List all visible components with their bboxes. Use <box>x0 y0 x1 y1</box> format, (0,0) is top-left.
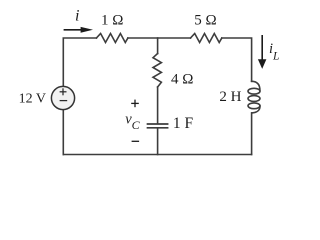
voltage source V1 12V circle <box>51 86 74 109</box>
label minus sign of vC <box>132 140 140 142</box>
wire middle branch top (junction to R 4ohm) <box>157 38 159 54</box>
svg-text:1 Ω: 1 Ω <box>101 13 123 29</box>
wire right-bottom segment (inductor to bottom rail) <box>251 113 253 155</box>
wire bottom rail <box>63 154 251 156</box>
capacitor 1F bottom plate <box>148 127 168 129</box>
resistor 4 ohm zigzag <box>153 54 161 88</box>
resistor 5 ohm zigzag <box>191 34 222 43</box>
voltage source plus terminal mark <box>60 88 67 95</box>
wire middle branch (R 4ohm to capacitor) <box>157 87 159 123</box>
svg-text:12 V: 12 V <box>19 92 46 107</box>
inductor 2H coil entry curve <box>252 81 260 90</box>
wire middle branch bottom (capacitor to bottom rail) <box>157 129 159 155</box>
svg-text:5 Ω: 5 Ω <box>194 13 216 29</box>
inductor 2H exit curve <box>252 106 260 113</box>
svg-text:i: i <box>75 8 79 25</box>
svg-text:1 F: 1 F <box>173 115 194 132</box>
resistor 1 ohm zigzag <box>96 34 128 43</box>
inductor 2H loop 1 <box>248 88 260 94</box>
wire top-right segment and right drop to inductor <box>222 38 252 81</box>
svg-text:2 H: 2 H <box>219 89 241 105</box>
svg-text:iL: iL <box>269 41 279 62</box>
current arrow iL (right side, pointing down) <box>258 35 267 69</box>
wire left-bottom segment (source to bottom rail) <box>62 110 64 155</box>
capacitor 1F top plate <box>148 123 168 125</box>
current arrow i (top left, pointing right) <box>64 27 93 33</box>
svg-text:4 Ω: 4 Ω <box>171 71 193 87</box>
inductor 2H loop 2 <box>248 96 260 102</box>
wire top-middle segment (R 1ohm to junction to R 5ohm) <box>128 37 191 39</box>
svg-text:vC: vC <box>125 112 140 133</box>
voltage source minus terminal mark <box>60 100 68 102</box>
inductor 2H loop 3 <box>248 103 260 109</box>
wire top-left segment (node from source to R 1ohm) <box>63 38 96 87</box>
label plus sign of vC <box>131 100 139 108</box>
